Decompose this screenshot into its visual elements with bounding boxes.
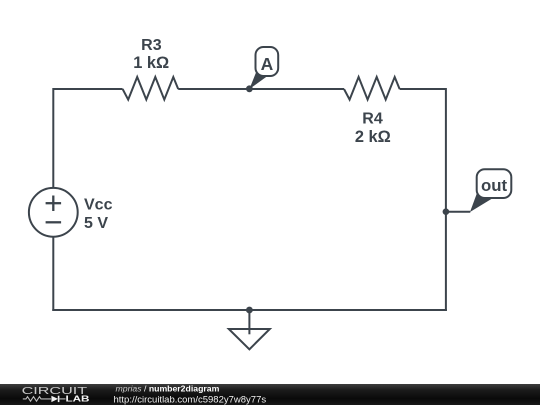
node out flag box [477,169,512,198]
voltage source minus terminal sign [46,221,62,223]
logo diode [51,396,58,402]
svg-text:mprias / number2diagram: mprias / number2diagram [116,384,220,393]
node out flag pointer wedge [470,193,493,212]
svg-text:5 V: 5 V [84,215,108,232]
node A flag pointer wedge [249,73,267,90]
wire bottom (to ground node) [52,309,447,311]
wire R4 to top right corner [400,88,446,90]
wire node A to R4 [249,88,344,90]
ground junction dot [246,307,253,314]
resistor R3 [123,77,179,100]
resistor R4 [344,77,400,100]
svg-text:1 kΩ: 1 kΩ [133,54,169,72]
wire out stub [446,211,470,213]
svg-text:R4: R4 [362,110,383,127]
wire R3 to node A [178,88,249,90]
voltage source plus terminal sign [46,196,62,212]
wire right (top corner to node out to bottom) [445,88,447,311]
wire left upper (top corner to Vcc) [52,88,54,188]
footer bar [0,384,540,405]
wire top left (Vcc+ to R3) [53,88,122,90]
logo resistor squiggle [23,397,51,402]
svg-text:Vcc: Vcc [84,197,113,214]
svg-text:http://circuitlab.com/c5982y7w: http://circuitlab.com/c5982y7w8y77s [114,394,267,405]
svg-text:out: out [481,176,508,195]
wire left lower (Vcc to bottom corner) [52,237,54,311]
ground stem [248,310,250,334]
svg-text:R3: R3 [141,37,162,54]
voltage source Vcc circle [29,188,78,237]
ground triangle [229,329,270,349]
node A junction dot [246,85,253,92]
node A flag box [256,47,279,76]
node out junction dot [443,208,450,215]
svg-text:LAB: LAB [66,393,90,403]
svg-text:2 kΩ: 2 kΩ [355,128,391,146]
svg-text:A: A [261,54,274,74]
